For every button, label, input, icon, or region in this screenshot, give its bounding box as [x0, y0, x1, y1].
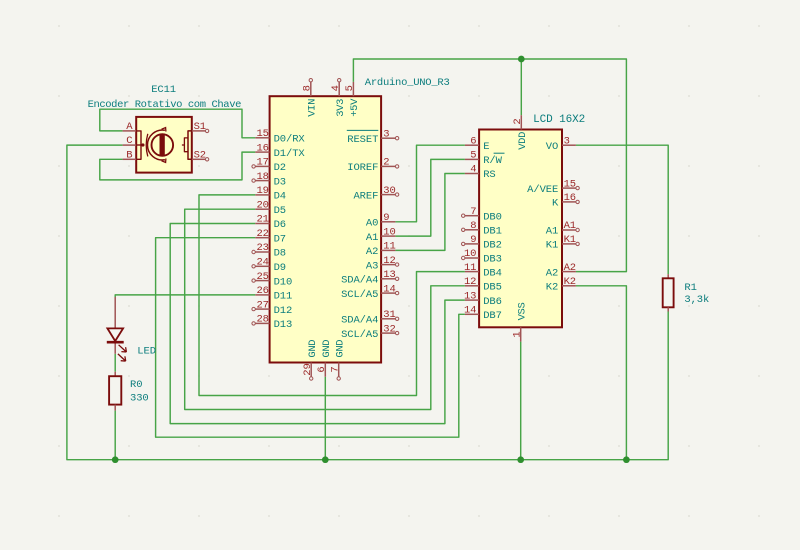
svg-text:LCD 16X2: LCD 16X2 [533, 114, 585, 126]
svg-text:RESET: RESET [347, 134, 378, 146]
svg-text:6: 6 [316, 366, 328, 372]
svg-text:D5: D5 [274, 205, 286, 217]
svg-text:16: 16 [564, 192, 576, 204]
svg-text:A1: A1 [564, 220, 576, 232]
svg-text:S2: S2 [194, 149, 206, 161]
svg-text:Encoder Rotativo com Chave: Encoder Rotativo com Chave [88, 99, 242, 111]
svg-text:27: 27 [256, 299, 268, 311]
svg-text:5: 5 [470, 150, 476, 162]
svg-text:14: 14 [383, 283, 395, 295]
svg-text:D7: D7 [274, 233, 286, 245]
svg-text:IOREF: IOREF [347, 162, 378, 174]
svg-text:R0: R0 [130, 379, 142, 391]
svg-text:D1/TX: D1/TX [274, 148, 306, 160]
svg-text:11: 11 [383, 241, 395, 253]
svg-text:3,3k: 3,3k [684, 294, 709, 306]
svg-text:31: 31 [383, 309, 395, 321]
svg-text:14: 14 [464, 305, 476, 317]
svg-text:D9: D9 [274, 262, 286, 274]
svg-text:8: 8 [302, 85, 314, 91]
svg-text:A2: A2 [546, 267, 558, 279]
svg-text:20: 20 [256, 199, 268, 211]
svg-text:15: 15 [256, 128, 268, 140]
svg-text:29: 29 [302, 363, 314, 375]
svg-text:VO: VO [546, 141, 558, 153]
svg-text:7: 7 [330, 366, 342, 372]
svg-text:K2: K2 [546, 282, 558, 294]
svg-text:330: 330 [130, 393, 149, 405]
svg-text:R/W: R/W [483, 155, 502, 167]
svg-text:23: 23 [256, 242, 268, 254]
svg-text:K2: K2 [564, 276, 576, 288]
svg-text:D11: D11 [274, 291, 293, 303]
svg-text:DB3: DB3 [483, 254, 502, 266]
svg-text:K1: K1 [546, 240, 558, 252]
svg-text:A1: A1 [366, 232, 378, 244]
svg-text:2: 2 [512, 118, 524, 124]
svg-text:K1: K1 [564, 234, 576, 246]
svg-text:VIN: VIN [306, 99, 318, 117]
svg-text:R1: R1 [684, 282, 696, 294]
svg-text:5: 5 [344, 85, 356, 91]
svg-text:B: B [126, 149, 132, 161]
svg-text:30: 30 [383, 185, 395, 197]
svg-text:A2: A2 [564, 262, 576, 274]
svg-text:SCL/A5: SCL/A5 [341, 329, 378, 341]
svg-text:13: 13 [464, 290, 476, 302]
svg-text:DB2: DB2 [483, 240, 502, 252]
svg-text:DB1: DB1 [483, 226, 502, 238]
svg-text:12: 12 [464, 276, 476, 288]
svg-text:Arduino_UNO_R3: Arduino_UNO_R3 [365, 77, 450, 89]
svg-text:4: 4 [330, 85, 342, 91]
svg-text:D6: D6 [274, 219, 286, 231]
svg-text:D13: D13 [274, 319, 293, 331]
svg-text:+5V: +5V [349, 98, 361, 117]
svg-text:8: 8 [470, 220, 476, 232]
svg-text:22: 22 [256, 228, 268, 240]
svg-text:7: 7 [470, 206, 476, 218]
svg-text:3: 3 [383, 128, 389, 140]
svg-text:1: 1 [512, 331, 524, 337]
svg-text:DB4: DB4 [483, 267, 502, 279]
svg-text:13: 13 [383, 269, 395, 281]
svg-text:D0/RX: D0/RX [274, 134, 306, 146]
svg-text:SDA/A4: SDA/A4 [341, 275, 378, 287]
svg-text:2: 2 [383, 157, 389, 169]
svg-text:E: E [483, 141, 489, 153]
svg-text:K: K [552, 198, 559, 210]
svg-text:28: 28 [256, 314, 268, 326]
svg-text:12: 12 [383, 255, 395, 267]
svg-text:9: 9 [470, 234, 476, 246]
svg-text:RS: RS [483, 169, 495, 181]
svg-text:11: 11 [464, 262, 476, 274]
svg-text:15: 15 [564, 178, 576, 190]
svg-text:A: A [126, 121, 133, 133]
svg-text:21: 21 [256, 214, 268, 226]
svg-text:24: 24 [256, 257, 268, 269]
svg-text:25: 25 [256, 271, 268, 283]
svg-text:4: 4 [470, 164, 476, 176]
svg-text:17: 17 [256, 157, 268, 169]
svg-text:DB5: DB5 [483, 282, 502, 294]
svg-text:DB7: DB7 [483, 310, 502, 322]
svg-text:A/VEE: A/VEE [527, 184, 558, 196]
svg-text:3V3: 3V3 [335, 99, 347, 117]
svg-text:EC11: EC11 [151, 84, 176, 96]
svg-text:D2: D2 [274, 162, 286, 174]
svg-text:VSS: VSS [516, 302, 528, 320]
svg-text:VDD: VDD [517, 132, 529, 150]
svg-text:A3: A3 [366, 260, 378, 272]
svg-text:D8: D8 [274, 248, 286, 260]
svg-text:9: 9 [383, 212, 389, 224]
svg-text:10: 10 [464, 248, 476, 260]
svg-text:SDA/A4: SDA/A4 [341, 315, 378, 327]
svg-text:GND: GND [307, 340, 319, 358]
svg-text:19: 19 [256, 185, 268, 197]
svg-text:GND: GND [334, 340, 346, 358]
svg-text:D12: D12 [274, 305, 293, 317]
svg-text:LED: LED [137, 345, 156, 357]
svg-text:A1: A1 [546, 226, 558, 238]
svg-text:AREF: AREF [353, 190, 378, 202]
svg-text:C: C [126, 135, 132, 147]
svg-text:16: 16 [256, 142, 268, 154]
svg-text:A0: A0 [366, 218, 378, 230]
svg-text:S1: S1 [194, 121, 206, 133]
svg-text:A2: A2 [366, 246, 378, 258]
svg-text:10: 10 [383, 226, 395, 238]
svg-text:D3: D3 [274, 176, 286, 188]
svg-text:6: 6 [470, 135, 476, 147]
svg-text:D4: D4 [274, 191, 286, 203]
svg-text:18: 18 [256, 171, 268, 183]
svg-text:26: 26 [256, 285, 268, 297]
svg-text:GND: GND [321, 340, 333, 358]
svg-text:DB0: DB0 [483, 211, 502, 223]
svg-text:32: 32 [383, 323, 395, 335]
svg-text:3: 3 [564, 135, 570, 147]
svg-text:SCL/A5: SCL/A5 [341, 289, 378, 301]
svg-text:DB6: DB6 [483, 296, 502, 308]
svg-text:D10: D10 [274, 276, 293, 288]
